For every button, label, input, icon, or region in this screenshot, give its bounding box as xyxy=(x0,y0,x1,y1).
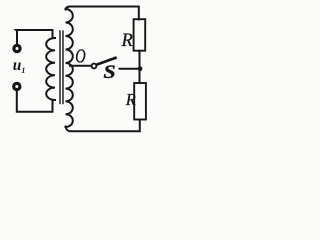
wire: secondary bottom lead to bottom rail xyxy=(66,120,140,132)
background paper xyxy=(0,0,155,144)
transformer primary winding L1 (5 bumps, bulge left) xyxy=(46,38,55,100)
junction node dot xyxy=(138,66,143,71)
resistor R2 body xyxy=(134,83,146,120)
switch pivot contact circle xyxy=(92,64,97,69)
svg-text:S: S xyxy=(103,62,115,82)
switch S arm xyxy=(97,58,115,65)
transformer secondary winding L2 (9 bumps, bulge right) xyxy=(66,9,73,127)
transformer core line 2 xyxy=(62,31,64,104)
wire: center tap O to switch pivot xyxy=(70,65,91,67)
wire: secondary top lead to top rail xyxy=(66,7,139,20)
switch arm tip xyxy=(114,56,117,59)
resistor R1 body xyxy=(134,19,146,51)
svg-text:R: R xyxy=(121,31,133,51)
wire: switch fixed side to junction xyxy=(120,68,141,70)
svg-text:R: R xyxy=(125,90,136,109)
wire: left loop top (terminal 1 up, across to primary) xyxy=(16,30,53,44)
svg-text:O: O xyxy=(75,44,86,67)
transformer core line 1 xyxy=(59,31,61,104)
terminal 2 (bottom input) xyxy=(14,83,20,89)
wire: right vertical between resistors xyxy=(139,51,141,83)
terminal 1 (top input) xyxy=(14,45,20,51)
wire: left loop bottom (terminal 2 down, across from primary) xyxy=(17,91,53,112)
